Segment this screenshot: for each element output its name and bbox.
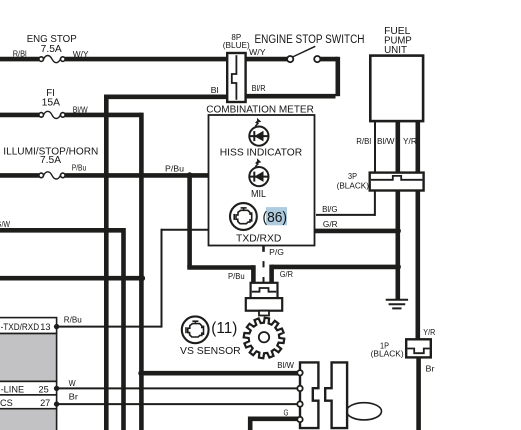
svg-text:Br: Br <box>426 364 435 373</box>
highlight (86) <box>266 207 287 225</box>
connector 8P (BLUE) <box>227 53 245 102</box>
svg-text:TXD/RXD: TXD/RXD <box>236 234 281 245</box>
wire R/Bu from ECM pin 13 <box>57 326 162 328</box>
connector 1P (BLACK) <box>406 339 431 357</box>
ECM box rows <box>0 333 57 381</box>
svg-text:W/Y: W/Y <box>73 50 89 59</box>
connector 3P (BLACK) <box>370 173 424 191</box>
wire Y/R fuel pump to 3P connector <box>415 121 420 172</box>
svg-text:P/Bu: P/Bu <box>72 164 87 173</box>
wire Bl/W to connector pin <box>141 371 298 376</box>
wire W/Y 8P connector to engine stop switch <box>246 57 288 62</box>
stub P/G below meter <box>262 246 265 252</box>
VS sensor connector lower body <box>246 298 282 311</box>
key in 3P connector <box>371 176 422 180</box>
wire P/Bu horizontal jog <box>187 265 253 270</box>
connector pin Bl/W <box>297 370 302 375</box>
wire from switch right contact <box>320 57 338 62</box>
fuse ILLUMI/STOP/HORN 7.5A <box>39 173 44 178</box>
wire Y/R 3P to 1P connector <box>415 191 420 340</box>
svg-text:Bl/G: Bl/G <box>322 205 338 214</box>
wire Br 1P connector to bottom <box>416 357 421 430</box>
wire G vertical to bottom <box>248 417 253 430</box>
wire W/Y fuse to 8P connector <box>65 57 227 62</box>
svg-text:P/Bu: P/Bu <box>228 272 245 281</box>
wire to FI fuse <box>0 113 39 118</box>
svg-text:27: 27 <box>40 398 50 408</box>
wire P/Bu down to VS sensor connector <box>251 265 256 283</box>
engine icon (11) at VS sensor <box>182 316 209 343</box>
svg-text:Bl/R: Bl/R <box>252 84 266 93</box>
gear hub hole <box>259 332 269 342</box>
junction P/Bu <box>187 172 193 178</box>
ECM pin 27 <box>54 401 59 406</box>
svg-text:Y/R: Y/R <box>403 137 417 146</box>
wire G/R from combination meter <box>315 229 398 234</box>
wire R/Bl fuel pump to 3P connector <box>374 121 376 172</box>
svg-text:UNIT: UNIT <box>384 45 407 56</box>
svg-text:R/Bu: R/Bu <box>64 315 82 324</box>
svg-text:(BLACK): (BLACK) <box>371 350 404 359</box>
svg-text:P/Bu: P/Bu <box>165 165 184 174</box>
wire Bl/W vertical bus <box>139 113 144 430</box>
box combination meter <box>209 115 315 246</box>
wire P/Bu vertical <box>187 175 192 267</box>
wire P/Bu fuse to combination meter <box>65 173 208 178</box>
wire /W from left edge <box>0 228 124 233</box>
svg-text:(86): (86) <box>263 209 288 226</box>
connector pin W <box>297 386 302 391</box>
junction ground bus <box>395 264 401 270</box>
wire Bl/G up to 3P connector <box>374 191 376 216</box>
wire R/Bl to ENG STOP fuse <box>0 57 39 62</box>
connector half right (with tab) <box>325 362 347 428</box>
svg-text:HISS INDICATOR: HISS INDICATOR <box>220 146 303 158</box>
wire Bl/W fuel pump to 3P connector <box>395 121 400 172</box>
svg-text:Bl/W: Bl/W <box>377 137 395 146</box>
wire Bl/G from combination meter <box>316 214 375 216</box>
connector VS sensor upper <box>251 283 278 298</box>
ECM pin 13 <box>54 324 59 329</box>
svg-text:G: G <box>284 409 289 418</box>
svg-text:R/Bl: R/Bl <box>13 50 27 59</box>
wire G to connector pin <box>250 416 298 421</box>
wire Bl/W fuel pump pin to ground <box>395 191 400 300</box>
wire Bl from 8P connector <box>106 95 227 100</box>
wire /W vertical bus <box>121 228 126 430</box>
svg-text:Br: Br <box>69 393 79 402</box>
ground <box>386 300 408 309</box>
svg-text:-LINE: -LINE <box>1 385 25 395</box>
wire Br from ECM pin 27 <box>57 403 298 405</box>
key in 8P connector <box>232 55 237 100</box>
svg-text:Bl/W: Bl/W <box>277 361 294 370</box>
wire Bl/R back to 8P connector <box>246 94 336 99</box>
fuse FI 15A <box>39 113 44 118</box>
wire P/G dashed <box>263 245 265 283</box>
svg-text:G/R: G/R <box>323 220 338 229</box>
gear VS sensor rotor <box>244 318 285 359</box>
junction on Bl/W bus <box>139 275 145 281</box>
svg-text:Bl: Bl <box>211 86 219 95</box>
LED MIL lamp <box>249 158 268 186</box>
wire to ILLUMI/STOP/HORN fuse <box>0 173 39 178</box>
svg-text:W/Y: W/Y <box>249 48 266 57</box>
svg-text:G/R: G/R <box>280 270 293 279</box>
box fuel pump unit <box>370 56 423 122</box>
connector pin G <box>297 417 302 422</box>
connector pin Br <box>297 401 302 406</box>
ECM pin 25 <box>54 386 59 391</box>
svg-text:G/W: G/W <box>0 220 10 229</box>
connector half left (with pins) <box>300 362 318 428</box>
svg-text:7.5A: 7.5A <box>41 44 62 55</box>
engine icon (86) in combination meter <box>230 203 257 230</box>
svg-text:3P: 3P <box>348 172 357 181</box>
svg-text:(BLACK): (BLACK) <box>337 181 370 190</box>
wire joining Bl/W bus <box>0 276 141 281</box>
LED HISS indicator lamp <box>249 118 268 146</box>
wire switch loop vertical <box>335 57 340 96</box>
svg-text:(11): (11) <box>211 320 237 337</box>
wire R/Bu to combination meter <box>162 229 209 231</box>
svg-text:13: 13 <box>40 322 50 332</box>
svg-text:(BLUE): (BLUE) <box>223 41 250 50</box>
svg-text:-TXD/RXD: -TXD/RXD <box>1 322 40 332</box>
svg-text:COMBINATION METER: COMBINATION METER <box>206 104 313 115</box>
svg-text:ENGINE STOP SWITCH: ENGINE STOP SWITCH <box>255 34 365 46</box>
svg-text:CS: CS <box>0 398 13 408</box>
svg-text:P/G: P/G <box>269 248 284 257</box>
svg-text:25: 25 <box>38 385 48 395</box>
fuse ENG STOP 7.5A <box>39 57 44 62</box>
VS sensor stem <box>259 311 269 316</box>
engine stop switch contacts and lever <box>293 46 316 57</box>
svg-text:W: W <box>69 379 76 388</box>
wire G/R down to VS sensor connector <box>269 265 274 284</box>
svg-text:MIL: MIL <box>251 189 266 200</box>
wire loop ellipse <box>347 403 382 420</box>
svg-text:VS SENSOR: VS SENSOR <box>180 346 241 357</box>
key in 1P connector <box>407 349 429 354</box>
svg-text:7.5A: 7.5A <box>40 155 61 166</box>
wire G/R from VS sensor connector <box>272 265 398 270</box>
svg-text:Y/R: Y/R <box>423 328 435 337</box>
wire W from ECM pin 25 <box>57 387 298 389</box>
wire Bl vertical bus <box>104 95 109 430</box>
wire R/Bu vertical <box>161 229 163 328</box>
wire Bl/W from FI fuse <box>65 113 141 118</box>
svg-text:Bl/W: Bl/W <box>73 105 88 114</box>
junction G/R and fuel pump ground <box>395 228 401 234</box>
key in VS sensor connector <box>252 288 276 292</box>
svg-text:R/Bl: R/Bl <box>356 137 371 146</box>
junction Bl/W tee <box>138 370 144 376</box>
svg-text:15A: 15A <box>42 98 61 109</box>
